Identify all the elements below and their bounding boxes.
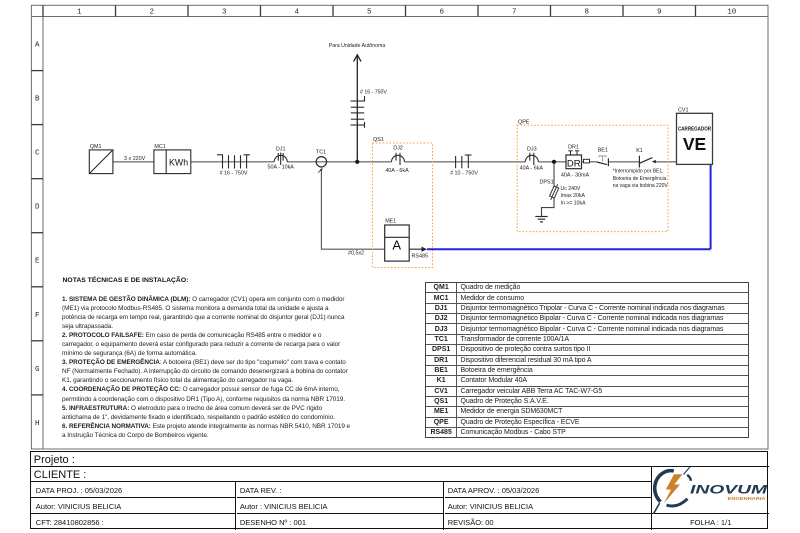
svg-text:DJ2: DJ2 <box>393 146 403 152</box>
svg-text:4: 4 <box>295 9 300 17</box>
cable marker # 10 - 750V <box>456 155 472 168</box>
contactor K1 <box>639 156 652 168</box>
enclosure QPE (dashed) <box>517 125 668 231</box>
svg-text:40A - 6kA: 40A - 6kA <box>520 166 544 172</box>
svg-text:In >= 10kA: In >= 10kA <box>561 200 587 206</box>
arrowhead RS485 <box>422 247 428 252</box>
svg-text:CV1: CV1 <box>678 108 689 114</box>
svg-text:DJ3: DJ3 <box>527 147 537 153</box>
cable marker # 16 - 750V (feeder) <box>217 155 250 169</box>
grid labels <box>35 9 737 428</box>
svg-text:Uc 240V: Uc 240V <box>561 186 581 192</box>
svg-text:10: 10 <box>727 9 737 17</box>
wire: DJ2 to DJ3 <box>405 161 526 163</box>
svg-text:G: G <box>35 366 40 374</box>
svg-text:# 16 - 750V: # 16 - 750V <box>360 90 387 96</box>
svg-text:ENGENHARIA: ENGENHARIA <box>728 496 767 501</box>
wire: DJ3 to DR1 <box>538 161 566 163</box>
svg-text:3: 3 <box>222 9 227 17</box>
cable marker # 16 - 750V (riser) <box>351 96 365 128</box>
enclosure QS1 (dashed) <box>373 143 433 268</box>
svg-text:2: 2 <box>150 9 155 17</box>
wire: BE1 to K1 <box>608 161 639 163</box>
BE1 contact <box>597 158 609 166</box>
node A (tap to autonomous unit riser) <box>355 160 359 164</box>
wire: DJ1 to DJ2 (through TC1 and node A) <box>287 161 391 163</box>
residual current device DR1 <box>566 155 582 169</box>
node B (tap to DPS1) <box>552 160 556 164</box>
wire: riser Para Unidade Autonoma <box>354 55 361 162</box>
surge protector DPS1 <box>548 183 560 201</box>
current transformer TC1 <box>316 157 326 167</box>
svg-text:KWh: KWh <box>169 157 188 167</box>
svg-text:40A - 6kA: 40A - 6kA <box>385 168 409 174</box>
svg-text:# 16 - 750V: # 16 - 750V <box>220 171 248 177</box>
svg-text:8: 8 <box>585 9 590 17</box>
svg-text:MC1: MC1 <box>154 144 165 150</box>
svg-text:CARREGADOR: CARREGADOR <box>678 127 711 133</box>
svg-text:D: D <box>35 204 40 212</box>
svg-text:RS485: RS485 <box>412 254 428 260</box>
svg-text:BE1: BE1 <box>598 147 608 153</box>
svg-text:5: 5 <box>367 9 372 17</box>
svg-text:7: 7 <box>512 9 517 17</box>
svg-text:C: C <box>35 150 40 158</box>
svg-text:DJ1: DJ1 <box>276 146 286 152</box>
svg-text:na vaga via bobina 220V: na vaga via bobina 220V <box>613 183 669 189</box>
svg-text:#0,5x2: #0,5x2 <box>348 251 364 257</box>
svg-text:ME1: ME1 <box>385 219 396 225</box>
svg-text:50A - 10kA: 50A - 10kA <box>268 165 295 171</box>
svg-text:INOVUM: INOVUM <box>690 485 768 497</box>
title block <box>30 451 768 530</box>
notes block <box>63 277 189 284</box>
svg-text:DPS1: DPS1 <box>540 180 554 186</box>
wire: ME1 RS485 stub <box>409 248 423 250</box>
svg-text:9: 9 <box>657 9 662 17</box>
svg-text:1: 1 <box>77 9 82 17</box>
svg-text:VE: VE <box>683 134 706 154</box>
note: BE1 interlock text <box>613 169 669 189</box>
svg-text:QPE: QPE <box>518 119 530 125</box>
wire: DR1 to BE1 <box>582 161 597 163</box>
wire: TC1 secondary to ME1 <box>318 169 385 250</box>
svg-text:K1: K1 <box>636 148 643 154</box>
svg-text:E: E <box>35 258 40 266</box>
wire: DPS1 to ground <box>542 198 555 217</box>
svg-text:QM1: QM1 <box>90 144 102 150</box>
row grid ticks <box>31 71 43 395</box>
svg-text:B: B <box>35 96 40 104</box>
legend table <box>425 282 749 438</box>
svg-text:A: A <box>392 238 401 253</box>
EV charger CV1 <box>677 113 713 164</box>
svg-text:40A - 30mA: 40A - 30mA <box>561 172 590 178</box>
svg-text:Para Unidade Autônoma: Para Unidade Autônoma <box>329 43 386 49</box>
breaker DJ1 (tripolar) <box>274 153 287 165</box>
svg-text:TC1: TC1 <box>316 150 326 156</box>
column grid ticks <box>43 5 696 16</box>
sheet border frame <box>31 5 768 449</box>
svg-text:Imax 20kA: Imax 20kA <box>561 193 586 199</box>
logo INOVUM <box>648 463 772 518</box>
svg-text:# 10 - 750V: # 10 - 750V <box>450 171 478 177</box>
wire: RS485 modbus cable (blue, vertical to CV1) <box>710 164 712 249</box>
svg-text:*Interrompido por BE1,: *Interrompido por BE1, <box>613 169 664 175</box>
wire: K1 to CV1 <box>655 161 677 163</box>
breaker DJ3 (bipolar) <box>525 153 538 165</box>
svg-text:A: A <box>35 42 40 50</box>
DR1 aux contact block <box>584 159 590 163</box>
breaker DJ2 (bipolar) <box>392 153 405 165</box>
DR1 test terminals <box>568 151 579 155</box>
svg-text:6: 6 <box>440 9 445 17</box>
svg-text:Botoeira de Emergência: Botoeira de Emergência <box>613 176 667 182</box>
consumption meter MC1 <box>154 150 191 174</box>
wire: QM1 to MC1 <box>113 161 154 163</box>
svg-text:DR: DR <box>567 158 581 169</box>
K1 arrowhead <box>652 160 656 163</box>
svg-text:DR1: DR1 <box>568 145 579 151</box>
wire: RS485 modbus cable (blue, horizontal) <box>427 248 711 250</box>
ground <box>535 217 547 222</box>
emergency pushbutton BE1 (NC mushroom) <box>599 156 606 162</box>
wire: MC1 to DJ1 <box>191 161 274 163</box>
svg-text:3 x 220V: 3 x 220V <box>124 156 146 162</box>
energy meter ME1 <box>385 225 410 261</box>
svg-text:F: F <box>35 312 40 320</box>
meter cabinet QM1 <box>89 150 113 174</box>
svg-text:QS1: QS1 <box>373 137 384 143</box>
svg-text:H: H <box>35 420 40 428</box>
arrowhead on TC1 secondary <box>320 168 323 171</box>
wire: node B down to DPS1 <box>553 163 555 187</box>
